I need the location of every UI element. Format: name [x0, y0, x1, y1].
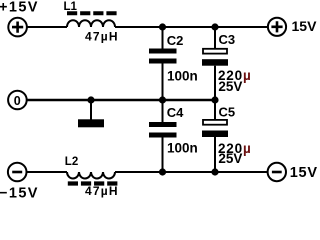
capacitor C2: [149, 27, 198, 100]
svg-text:−15V: −15V: [0, 185, 39, 201]
node ground: [87, 96, 94, 103]
svg-text:L2: L2: [65, 156, 78, 168]
svg-text:47µH: 47µH: [85, 184, 119, 198]
node mid C2/C4: [159, 96, 166, 103]
svg-text:C3: C3: [219, 32, 236, 47]
wire middle: [27, 99, 215, 101]
capacitor C3: [202, 27, 252, 100]
wire top right: [115, 26, 268, 28]
terminal +15V right: [268, 18, 317, 36]
wire top left: [27, 26, 67, 28]
terminal 0: [8, 91, 27, 110]
inductor L2: [65, 156, 119, 198]
svg-text:C4: C4: [167, 105, 184, 120]
svg-text:C5: C5: [219, 105, 236, 120]
terminal -15V right: [268, 163, 318, 181]
svg-text:L1: L1: [64, 1, 78, 13]
capacitor C5: [202, 100, 252, 172]
svg-text:47µH: 47µH: [85, 29, 119, 43]
wire bottom left: [26, 171, 67, 173]
inductor L1: [64, 1, 119, 43]
svg-text:0: 0: [14, 94, 21, 108]
node bottom C4: [159, 168, 166, 175]
svg-text:100n: 100n: [167, 140, 198, 155]
node top C2: [159, 23, 166, 30]
node mid C3/C5: [211, 96, 218, 103]
ground: [78, 100, 104, 127]
svg-text:C2: C2: [167, 33, 184, 48]
svg-text:25V: 25V: [218, 151, 242, 166]
node bottom C5: [211, 168, 218, 175]
terminal +15V left: [8, 18, 27, 37]
capacitor C4: [149, 100, 198, 172]
svg-text:15V: 15V: [290, 165, 318, 181]
svg-text:25V: 25V: [218, 79, 242, 94]
terminal -15V left: [8, 163, 27, 182]
node top C3: [211, 23, 218, 30]
svg-text:+15V: +15V: [0, 0, 39, 15]
svg-text:100n: 100n: [167, 68, 198, 83]
svg-text:15V: 15V: [292, 18, 318, 34]
wire bottom right: [115, 171, 268, 173]
